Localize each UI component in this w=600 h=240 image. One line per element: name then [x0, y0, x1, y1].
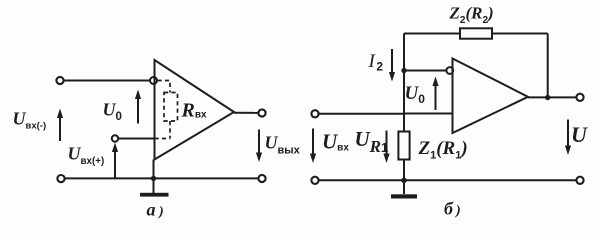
wire: feedback top right segment	[492, 33, 548, 35]
wire: non-inverting input	[118, 138, 154, 140]
node: inverting input circle	[150, 77, 157, 84]
terminal: input (-) top-left	[56, 77, 63, 84]
arrow: Uvx pointing down (circuit b)	[312, 129, 314, 159]
wire: op-amp output to terminal	[528, 96, 576, 98]
terminal: bottom-right of circuit a	[258, 175, 265, 182]
wire: dashed horizontal to non-inverting wire	[155, 138, 171, 140]
ground	[140, 193, 169, 197]
arrow: U output pointing down	[567, 120, 569, 151]
arrow: I2 pointing down	[391, 49, 393, 77]
wire: bottom rail circuit b	[319, 179, 577, 181]
node: inverting input circle of U2	[446, 67, 453, 74]
wire: input from terminal to column	[319, 113, 405, 115]
wire: Z1 bottom to rail and ground	[403, 160, 405, 195]
wire: triangle bottom corner to ground rail	[153, 160, 155, 194]
arrow: Uvyx pointing down	[258, 130, 260, 158]
wire: feedback right vertical to output	[547, 34, 549, 98]
wire: feedback top left segment	[404, 33, 460, 35]
junction: Z1 on bottom rail	[401, 178, 406, 183]
ground	[391, 194, 417, 198]
wire: op-amp output	[234, 112, 258, 114]
wire: dashed lead from Rvx to non-inverting wire	[169, 121, 171, 139]
junction: feedback at output	[545, 95, 550, 100]
arrow: Uvx(+) pointing up to node	[114, 147, 116, 178]
wire: non-inverting input of U2	[404, 113, 453, 115]
svg-text:U: U	[571, 122, 588, 147]
wire: to inverting input circle	[404, 70, 447, 72]
terminal: bottom-left of circuit b	[311, 177, 318, 184]
arrow: Uvx(-) pointing up	[59, 113, 61, 141]
op-amp U2 triangle	[453, 59, 529, 134]
wire: dashed lead from inverting node to Rvx	[158, 81, 171, 93]
junction: inverting tap on input column	[401, 68, 406, 73]
terminal: output of circuit a	[258, 109, 265, 116]
node: non-inverting input circle	[112, 135, 118, 141]
resistor Z1(R1) body	[398, 132, 409, 160]
resistor Rvx (dashed body)	[164, 93, 178, 122]
terminal: bottom-left	[57, 175, 64, 182]
terminal: input of circuit b	[311, 110, 318, 117]
arrow: UR1 pointing down	[386, 131, 388, 159]
resistor Z2(R2) body	[460, 28, 492, 38]
arrow: U0 pointing up (circuit a)	[137, 94, 139, 124]
terminal: output of circuit b	[576, 94, 583, 101]
op-amp U1 triangle	[155, 60, 235, 160]
terminal: bottom-right of circuit b	[576, 177, 583, 184]
junction: triangle-ground on bottom rail	[151, 176, 156, 181]
wire: bottom rail left circuit	[65, 177, 259, 179]
wire: feedback left vertical (input node column)	[403, 34, 405, 132]
wire: top input to inverting node	[64, 80, 150, 82]
arrow: U0 pointing up (circuit b)	[435, 81, 437, 110]
